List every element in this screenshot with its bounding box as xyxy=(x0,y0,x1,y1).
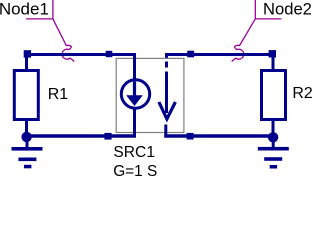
svg-text:R2: R2 xyxy=(292,85,312,102)
resistor R2 body xyxy=(262,71,286,120)
ground left lead xyxy=(26,137,29,148)
source SRC1 output bottom lead xyxy=(133,108,136,138)
wire top-left xyxy=(24,53,136,56)
junction square top-right corner xyxy=(269,50,276,57)
junction square top-left corner xyxy=(24,50,31,57)
source SRC1 arrow head xyxy=(126,95,143,106)
source SRC1 input bottom stub xyxy=(164,125,167,138)
svg-text:G=1 S: G=1 S xyxy=(113,163,157,178)
ground right lead xyxy=(272,137,275,148)
SRC1 body box xyxy=(116,58,184,132)
node Node1 hook xyxy=(53,19,74,62)
ground right bar2 xyxy=(264,157,282,161)
ground left bar3 xyxy=(24,165,31,169)
resistor R1 body xyxy=(14,71,38,120)
source SRC1 arrow shaft xyxy=(133,82,136,97)
svg-text:Node1: Node1 xyxy=(0,0,49,19)
ground right bar3 xyxy=(270,165,277,169)
ground left bar1 xyxy=(12,147,43,151)
resistor R1 top lead xyxy=(25,53,28,70)
wire bottom-left xyxy=(25,134,136,137)
source SRC1 output top lead xyxy=(133,53,136,81)
svg-text:R1: R1 xyxy=(48,86,68,103)
ground right bar1 xyxy=(258,147,289,151)
junction square pin1 top xyxy=(106,51,113,57)
node Node2 hook xyxy=(232,19,256,62)
node dot bottom-right xyxy=(268,132,278,142)
junction square pin3 top xyxy=(187,51,194,58)
ground left bar2 xyxy=(18,158,36,162)
source SRC1 input top stub xyxy=(165,53,168,58)
node Node2 label flag xyxy=(255,0,281,19)
junction square pin2 bottom xyxy=(104,133,111,140)
source SRC1 input arrow shaft xyxy=(165,72,168,114)
node Node1 label flag xyxy=(26,0,53,19)
wire bottom-right xyxy=(164,134,273,137)
wire top-right xyxy=(165,53,274,56)
node dot bottom-left xyxy=(21,132,31,142)
source SRC1 circle xyxy=(121,80,149,108)
junction square pin4 bottom xyxy=(187,133,194,140)
svg-text:SRC1: SRC1 xyxy=(113,144,155,161)
resistor R1 bottom lead xyxy=(25,120,28,138)
source SRC1 input dash xyxy=(165,62,168,68)
svg-text:Node2: Node2 xyxy=(263,0,312,18)
source SRC1 input arrow head xyxy=(159,102,176,119)
resistor R2 top lead xyxy=(272,53,275,70)
resistor R2 bottom lead xyxy=(272,120,275,138)
